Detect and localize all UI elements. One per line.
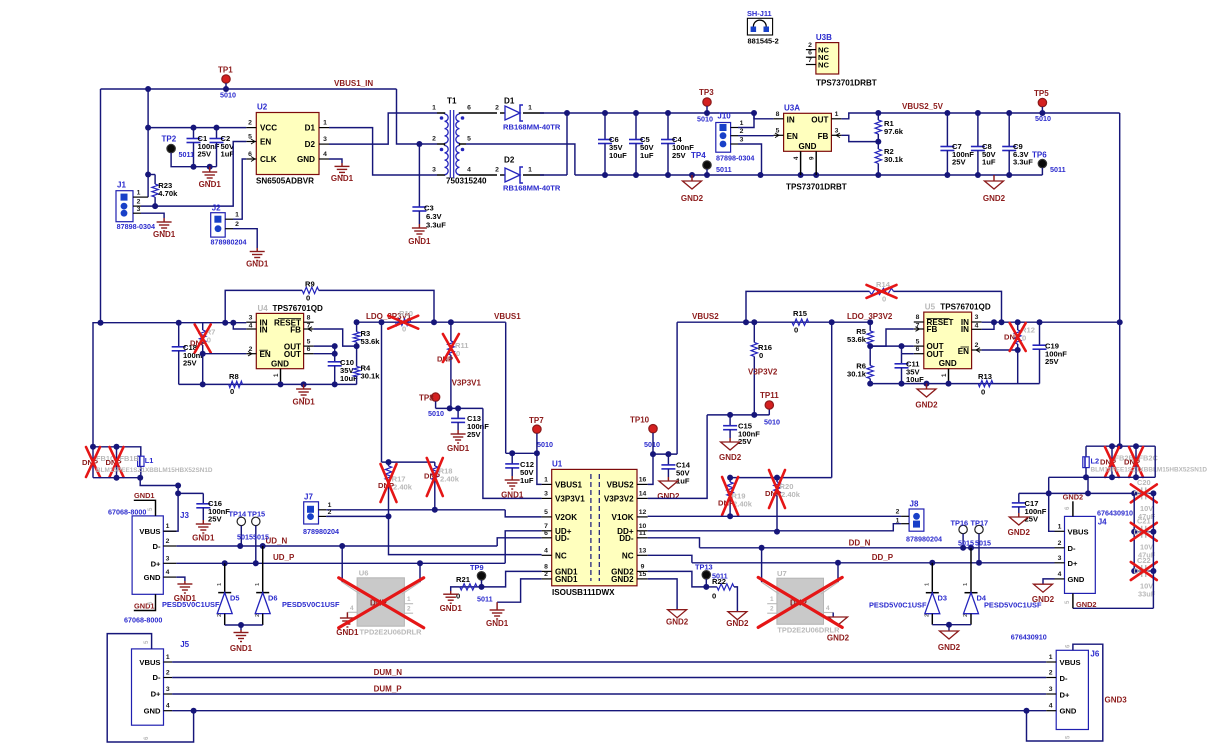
capacitor C15 100nF 25V bbox=[729, 415, 731, 426]
ground GND1 at U2 pin4 bbox=[329, 159, 342, 163]
svg-text:2: 2 bbox=[963, 614, 969, 617]
wire T1 pin5 to GND2 rail bbox=[466, 144, 575, 175]
svg-text:FB: FB bbox=[818, 132, 829, 141]
svg-text:BLM15PEE1SZ1XBBLM15HBX52SN1D: BLM15PEE1SZ1XBBLM15HBX52SN1D bbox=[96, 467, 213, 474]
svg-text:0: 0 bbox=[306, 294, 310, 303]
svg-text:PESD5V0C1USF: PESD5V0C1USF bbox=[869, 601, 927, 610]
capacitor C4 100nF 25V bbox=[667, 113, 669, 140]
op IC U2 SN6505ADBVR bbox=[256, 113, 319, 175]
diode D4 PESD5V0C1USF bbox=[970, 548, 972, 593]
svg-text:R22: R22 bbox=[712, 577, 726, 586]
wire V3P3V1 node rail bbox=[436, 407, 483, 409]
svg-text:97.6k: 97.6k bbox=[884, 127, 904, 136]
ground GND2 at U1 pin9 via R22 bbox=[648, 571, 707, 587]
svg-text:676430910: 676430910 bbox=[1011, 633, 1047, 642]
svg-text:D-: D- bbox=[152, 542, 160, 551]
svg-text:1: 1 bbox=[328, 502, 332, 509]
diode D3 PESD5V0C1USF bbox=[931, 563, 933, 593]
svg-text:U7: U7 bbox=[777, 569, 787, 578]
capacitor C18 100nF 25V bbox=[178, 323, 180, 347]
svg-text:DUM_N: DUM_N bbox=[374, 668, 403, 677]
svg-text:TPS76701QD: TPS76701QD bbox=[940, 303, 991, 312]
resistor R20 DNP 2.40k bbox=[776, 478, 778, 482]
svg-text:EN: EN bbox=[260, 138, 271, 147]
svg-text:9: 9 bbox=[809, 156, 816, 160]
svg-text:D+: D+ bbox=[1060, 691, 1070, 700]
svg-text:V1OK: V1OK bbox=[612, 513, 634, 522]
resistor R2 30.1k bbox=[877, 142, 879, 149]
wire D3 D4 join to GND2 bbox=[932, 624, 971, 626]
wire IN2 jog bbox=[233, 323, 246, 329]
svg-text:2: 2 bbox=[407, 606, 411, 613]
wire VBUS1 node rail bbox=[506, 452, 537, 454]
svg-text:GND1: GND1 bbox=[192, 534, 215, 543]
resistor R18 DNP 2.40k bbox=[434, 462, 436, 466]
svg-text:1uF: 1uF bbox=[520, 476, 534, 485]
test point TP11 bbox=[768, 409, 770, 415]
svg-text:D2: D2 bbox=[305, 140, 316, 149]
svg-text:GND1: GND1 bbox=[408, 237, 431, 246]
svg-text:8: 8 bbox=[776, 111, 780, 118]
svg-text:4: 4 bbox=[1058, 571, 1062, 578]
svg-text:NC: NC bbox=[622, 551, 634, 560]
svg-text:TP16: TP16 bbox=[951, 518, 969, 527]
svg-text:25V: 25V bbox=[672, 151, 686, 160]
svg-text:5: 5 bbox=[544, 509, 548, 516]
wire DUM_P row bbox=[172, 693, 1046, 695]
svg-text:5015: 5015 bbox=[975, 538, 991, 547]
svg-text:0: 0 bbox=[712, 592, 716, 601]
connector J4 676430910 USB bbox=[1065, 516, 1096, 593]
svg-text:30.1k: 30.1k bbox=[884, 155, 904, 164]
svg-text:GND1: GND1 bbox=[153, 230, 176, 239]
svg-text:3: 3 bbox=[249, 314, 253, 321]
wire DUM_N row bbox=[172, 677, 1046, 679]
svg-text:6: 6 bbox=[916, 346, 920, 353]
ground GND2 under U5 bbox=[926, 384, 928, 389]
wire rectifier output rail bbox=[566, 113, 568, 175]
ground GND1 at U6 pin4 bbox=[346, 612, 348, 618]
wire VBUS1_IN to T1 pin2 bbox=[397, 89, 438, 144]
svg-text:R9: R9 bbox=[305, 280, 315, 289]
svg-text:GND1: GND1 bbox=[336, 628, 359, 637]
svg-text:IN: IN bbox=[787, 115, 795, 124]
svg-text:U4: U4 bbox=[258, 304, 269, 313]
svg-text:TP2: TP2 bbox=[162, 135, 177, 144]
diode D5 PESD5V0C1USF bbox=[224, 563, 226, 592]
ground GND2 under C15 bbox=[729, 438, 731, 442]
ground GND1 under C12 bbox=[511, 476, 513, 480]
capacitor C7 100nF 25V bbox=[946, 113, 948, 147]
wire DD_N row bbox=[700, 547, 1055, 549]
wire U5 FB to divider bbox=[870, 329, 914, 346]
svg-text:U1: U1 bbox=[552, 459, 563, 468]
svg-text:GND2: GND2 bbox=[938, 643, 961, 652]
svg-text:10uF: 10uF bbox=[906, 375, 924, 384]
test point TP5 bbox=[1038, 98, 1046, 106]
svg-text:2.40k: 2.40k bbox=[440, 475, 460, 484]
capacitor C19 100nF 25V bbox=[1039, 322, 1041, 345]
svg-text:U5: U5 bbox=[925, 303, 936, 312]
svg-text:13: 13 bbox=[639, 547, 647, 554]
svg-text:V2OK: V2OK bbox=[555, 513, 577, 522]
svg-text:2: 2 bbox=[328, 509, 332, 516]
svg-text:878980204: 878980204 bbox=[906, 535, 942, 544]
svg-text:2: 2 bbox=[495, 167, 499, 174]
svg-text:4: 4 bbox=[350, 605, 354, 612]
svg-text:2: 2 bbox=[495, 105, 499, 112]
svg-text:V3P3V2: V3P3V2 bbox=[748, 368, 778, 377]
svg-text:GND2: GND2 bbox=[1008, 528, 1031, 537]
svg-text:3: 3 bbox=[835, 128, 839, 135]
svg-text:OUT: OUT bbox=[811, 115, 828, 124]
svg-text:3: 3 bbox=[166, 555, 170, 562]
svg-text:TPS73701DRBT: TPS73701DRBT bbox=[816, 79, 877, 88]
wire VBUS2 rail bbox=[677, 321, 870, 323]
wire FB2 bottom rail bbox=[1049, 476, 1156, 478]
svg-text:GND: GND bbox=[144, 573, 161, 582]
svg-text:GND2: GND2 bbox=[827, 634, 850, 643]
resistor R22 0 bbox=[706, 586, 717, 588]
svg-text:TP4: TP4 bbox=[691, 151, 706, 160]
wire VBUS2 node rail bbox=[653, 453, 677, 455]
capacitor C13 100nF 25V bbox=[457, 408, 459, 418]
wire UD_P row bbox=[176, 562, 505, 564]
wire rail drop to U3A IN bbox=[754, 113, 774, 119]
wire VBUS2_5V right vertical bbox=[1119, 113, 1121, 446]
svg-text:2: 2 bbox=[166, 538, 170, 545]
svg-text:1: 1 bbox=[528, 167, 532, 174]
svg-text:8: 8 bbox=[916, 314, 920, 321]
svg-text:4: 4 bbox=[544, 547, 548, 554]
svg-text:GND1: GND1 bbox=[199, 180, 222, 189]
svg-text:D1: D1 bbox=[504, 97, 515, 106]
svg-text:6: 6 bbox=[544, 530, 548, 537]
svg-text:FB1B: FB1B bbox=[120, 454, 139, 463]
svg-text:16: 16 bbox=[639, 476, 647, 483]
svg-text:GND3: GND3 bbox=[1105, 695, 1128, 704]
svg-text:D3: D3 bbox=[938, 594, 947, 603]
wire C17 VBUS rail bbox=[1019, 492, 1134, 494]
capacitor C22 DNP 10V 33uF bbox=[1134, 570, 1142, 572]
resistor R14 DNP 0 bypass bbox=[746, 291, 870, 322]
connector J3 67068-8000 USB bbox=[132, 516, 163, 594]
svg-text:1: 1 bbox=[235, 212, 239, 219]
svg-text:4.70k: 4.70k bbox=[158, 189, 178, 198]
wire left vertical VBUS1_IN bbox=[100, 89, 102, 323]
svg-text:5011: 5011 bbox=[477, 595, 493, 604]
svg-text:SH-J11: SH-J11 bbox=[747, 9, 772, 18]
svg-text:R10: R10 bbox=[399, 309, 413, 318]
svg-text:L2: L2 bbox=[1091, 457, 1100, 466]
wire V3P3V2 node rail bbox=[707, 414, 769, 416]
svg-text:4: 4 bbox=[793, 156, 800, 160]
connector J5 67068-8000 USB dummy bbox=[132, 649, 164, 725]
diode D1 RB168MM-40TR bbox=[466, 112, 497, 114]
capacitor C10 35V 10uF bbox=[334, 354, 336, 362]
svg-text:ISOUSB111DWX: ISOUSB111DWX bbox=[552, 588, 615, 597]
svg-text:2: 2 bbox=[925, 614, 931, 617]
wire UD- from U1 bbox=[497, 538, 541, 546]
wire U4 OUT pins bbox=[314, 345, 335, 347]
resistor R3 53.6k bbox=[356, 322, 358, 332]
svg-text:CLK: CLK bbox=[260, 155, 277, 164]
svg-text:2: 2 bbox=[770, 606, 774, 613]
svg-text:6: 6 bbox=[307, 346, 311, 353]
test point TP13 bbox=[702, 571, 710, 579]
svg-text:GND1: GND1 bbox=[486, 619, 509, 628]
wire V3P3V1 to U1 pin3 bbox=[483, 408, 542, 498]
svg-text:GND: GND bbox=[939, 359, 957, 368]
wire VBUS dummy row bbox=[172, 661, 1046, 663]
svg-text:0: 0 bbox=[794, 326, 798, 335]
svg-text:TP15: TP15 bbox=[248, 509, 266, 518]
svg-text:GND1: GND1 bbox=[501, 491, 524, 500]
svg-text:2: 2 bbox=[896, 509, 900, 516]
ferrite FB1B DNP bbox=[116, 447, 118, 478]
resistor R6 30.1k bbox=[869, 346, 871, 365]
svg-text:8: 8 bbox=[307, 314, 311, 321]
ground GND1 under C13 bbox=[457, 430, 459, 434]
svg-text:5: 5 bbox=[467, 136, 471, 143]
svg-text:1: 1 bbox=[407, 596, 411, 603]
svg-text:3: 3 bbox=[544, 490, 548, 497]
svg-text:J6: J6 bbox=[1090, 649, 1099, 658]
svg-text:5010: 5010 bbox=[428, 409, 444, 418]
svg-text:U3B: U3B bbox=[816, 33, 832, 42]
ground GND2 on rail right bbox=[993, 175, 995, 181]
svg-text:2: 2 bbox=[432, 136, 436, 143]
svg-text:TP8: TP8 bbox=[419, 393, 434, 402]
wire VBUS1 feed down bbox=[505, 322, 507, 453]
capacitor C17 100nF 25V bbox=[1018, 493, 1020, 503]
test point TP8 bbox=[431, 393, 439, 401]
suppressor U7 TPD2E2U06DRLR DNP bbox=[777, 578, 824, 624]
connector J1 87898-0304 bbox=[116, 191, 133, 222]
svg-text:3.3uF: 3.3uF bbox=[1013, 158, 1033, 167]
resistor R13 0 bbox=[978, 380, 993, 386]
wire U2 D2 to T1 pin1 bbox=[329, 113, 437, 144]
svg-text:C20: C20 bbox=[1137, 478, 1151, 487]
svg-text:1: 1 bbox=[1058, 523, 1062, 530]
svg-text:25V: 25V bbox=[1045, 357, 1059, 366]
svg-text:4: 4 bbox=[826, 605, 830, 612]
wire pullup top rail bbox=[382, 461, 435, 463]
svg-text:3: 3 bbox=[166, 686, 170, 693]
svg-text:D1: D1 bbox=[305, 124, 316, 133]
svg-text:J7: J7 bbox=[304, 492, 313, 501]
svg-text:BLM15PEE1SZ1XBBLM15HBX52SN1D: BLM15PEE1SZ1XBBLM15HBX52SN1D bbox=[1091, 466, 1208, 473]
wire UD_N row bbox=[176, 545, 497, 547]
wire J10 pin1 to rail bbox=[738, 113, 754, 128]
J5 shell loop bbox=[107, 634, 193, 742]
svg-text:15: 15 bbox=[639, 571, 647, 578]
svg-text:PESD5V0C1USF: PESD5V0C1USF bbox=[282, 600, 340, 609]
svg-text:VBUS: VBUS bbox=[139, 527, 160, 536]
svg-text:5015: 5015 bbox=[958, 538, 974, 547]
svg-text:0: 0 bbox=[230, 387, 234, 396]
ground GND2 under C17 bbox=[1018, 513, 1020, 517]
svg-text:30.1k: 30.1k bbox=[361, 372, 381, 381]
wire D5 D6 join to GND1 bbox=[225, 624, 263, 626]
inductor L2 bbox=[1085, 446, 1087, 457]
svg-text:1: 1 bbox=[544, 476, 548, 483]
svg-text:GND: GND bbox=[1060, 706, 1077, 715]
ferrite FB1C DNP bbox=[92, 447, 94, 478]
svg-text:DD_N: DD_N bbox=[849, 538, 871, 547]
svg-text:12: 12 bbox=[639, 509, 647, 516]
svg-text:VBUS2: VBUS2 bbox=[692, 312, 719, 321]
wire U4 EN to ground bbox=[203, 353, 247, 355]
svg-text:7: 7 bbox=[808, 57, 812, 64]
svg-text:25V: 25V bbox=[208, 515, 222, 524]
svg-text:2: 2 bbox=[544, 571, 548, 578]
svg-text:1: 1 bbox=[432, 105, 436, 112]
svg-text:5010: 5010 bbox=[764, 418, 780, 427]
svg-text:4: 4 bbox=[1049, 703, 1053, 710]
svg-text:1: 1 bbox=[896, 517, 900, 524]
wire VCC rail bbox=[148, 127, 246, 129]
svg-text:D2: D2 bbox=[504, 156, 515, 165]
svg-text:D-: D- bbox=[1068, 544, 1076, 553]
capacitor C6 35V 10uF bbox=[604, 113, 606, 140]
ground GND1 at J1 pin3 bbox=[141, 213, 164, 218]
svg-text:VBUS: VBUS bbox=[139, 658, 160, 667]
capacitor C14 50V 1uF bbox=[667, 454, 669, 465]
wire VBUS1_IN rail bbox=[101, 88, 397, 90]
wire V1OK row right bbox=[648, 515, 901, 517]
svg-text:NC: NC bbox=[818, 61, 829, 70]
ground GND2 on secondary rail bbox=[691, 175, 693, 181]
svg-text:TP3: TP3 bbox=[699, 88, 714, 97]
test point TP3 bbox=[703, 98, 711, 106]
svg-text:878980204: 878980204 bbox=[211, 238, 247, 247]
wire down to C17 rail bbox=[1048, 477, 1050, 493]
svg-text:1uF: 1uF bbox=[982, 158, 996, 167]
svg-text:1: 1 bbox=[528, 105, 532, 112]
connector J10 87898-0304 bbox=[716, 123, 731, 153]
op IC U5 TPS76701QD bbox=[924, 312, 972, 369]
svg-text:GND1: GND1 bbox=[292, 398, 315, 407]
svg-text:4: 4 bbox=[467, 167, 471, 174]
svg-text:D+: D+ bbox=[1068, 559, 1078, 568]
svg-text:5010: 5010 bbox=[1035, 114, 1051, 123]
svg-text:TP9: TP9 bbox=[470, 563, 484, 572]
svg-text:GND2: GND2 bbox=[719, 453, 742, 462]
svg-text:2.40k: 2.40k bbox=[781, 490, 801, 499]
svg-text:5: 5 bbox=[916, 338, 920, 345]
wire U5 IN2 jog bbox=[982, 322, 994, 329]
wire to U1 VBUS2 pin bbox=[648, 454, 653, 484]
resistor R15 0 bbox=[792, 319, 809, 325]
svg-text:5015: 5015 bbox=[253, 533, 269, 542]
wire V3P3V2 to U1 pin14 bbox=[648, 415, 707, 499]
wire to J3 VBUS bbox=[140, 478, 178, 486]
svg-text:3: 3 bbox=[975, 314, 979, 321]
test point TP6 bbox=[1038, 159, 1046, 167]
svg-text:1: 1 bbox=[166, 654, 170, 661]
svg-text:3: 3 bbox=[1058, 555, 1062, 562]
svg-text:GND2: GND2 bbox=[1063, 493, 1084, 502]
svg-text:67068-8000: 67068-8000 bbox=[124, 615, 162, 624]
svg-text:TP14: TP14 bbox=[229, 509, 248, 518]
resistor R5 53.6k bbox=[869, 322, 871, 331]
svg-text:D+: D+ bbox=[151, 690, 161, 699]
test point TP4 bbox=[703, 161, 711, 169]
svg-text:67068-8000: 67068-8000 bbox=[108, 508, 146, 517]
op IC U4 TPS76701QD bbox=[256, 313, 303, 368]
wire V1OK rail left bbox=[326, 515, 388, 517]
wire U5 ground rail bbox=[870, 383, 1039, 385]
svg-text:TP7: TP7 bbox=[529, 416, 544, 425]
svg-text:0: 0 bbox=[456, 592, 460, 601]
svg-text:2: 2 bbox=[975, 342, 979, 349]
svg-text:5: 5 bbox=[307, 338, 311, 345]
ground GND1 under C1 C2 bbox=[209, 167, 211, 172]
resistor R17 DNP 2.40k bbox=[388, 462, 390, 466]
resistor R23 4.70k bbox=[148, 174, 155, 176]
svg-text:GND2: GND2 bbox=[666, 618, 689, 627]
svg-text:2: 2 bbox=[235, 221, 239, 228]
wire J10 pin2 to U3A EN bbox=[738, 135, 774, 137]
svg-text:TP1: TP1 bbox=[218, 66, 233, 75]
resistor R16 0 to V3P3V2 bbox=[753, 322, 755, 342]
svg-text:D6: D6 bbox=[268, 593, 277, 602]
svg-text:1: 1 bbox=[740, 120, 744, 127]
svg-text:U6: U6 bbox=[359, 569, 369, 578]
resistor R10 DNP 0 in rail bbox=[395, 319, 411, 325]
wire DD- to DD_N row bbox=[648, 538, 700, 548]
connector J8 878980204 bbox=[909, 509, 924, 531]
wire U4 FB to divider bbox=[314, 329, 357, 346]
svg-text:25V: 25V bbox=[198, 150, 212, 159]
svg-text:J5: J5 bbox=[180, 640, 189, 649]
resistor R4 30.1k bbox=[356, 346, 358, 366]
test point TP1 bbox=[222, 75, 230, 83]
svg-text:676430910: 676430910 bbox=[1097, 508, 1133, 517]
svg-text:2: 2 bbox=[248, 120, 252, 127]
svg-text:2: 2 bbox=[255, 614, 261, 617]
J4 shell pin top bbox=[1072, 501, 1074, 516]
wire LDO_3P3V2 pullup rail feed bbox=[831, 322, 833, 477]
ferrite FB2B DNP bbox=[1111, 446, 1113, 477]
svg-text:V3P3V1: V3P3V1 bbox=[555, 494, 585, 503]
svg-text:EN: EN bbox=[958, 347, 969, 356]
wire U3A FB bbox=[841, 135, 878, 141]
svg-text:3: 3 bbox=[432, 167, 436, 174]
svg-text:1: 1 bbox=[1049, 654, 1053, 661]
svg-text:VBUS1_IN: VBUS1_IN bbox=[334, 79, 373, 88]
wire TP2 to cap ground rail bbox=[171, 153, 216, 167]
svg-text:C22: C22 bbox=[1137, 556, 1151, 565]
wire UD+ from U1 bbox=[505, 531, 541, 564]
capacitor C11 35V 10uF bbox=[901, 354, 903, 364]
wire secondary ground rail bbox=[575, 174, 1043, 176]
svg-text:U3A: U3A bbox=[784, 104, 800, 113]
ground GND2 at U1 pin15 bbox=[648, 579, 677, 610]
svg-text:J8: J8 bbox=[910, 499, 919, 508]
svg-text:OUT: OUT bbox=[927, 350, 944, 359]
resistor R12 DNP on EN bbox=[1017, 322, 1019, 330]
svg-text:TP17: TP17 bbox=[971, 518, 989, 527]
svg-text:GND1: GND1 bbox=[555, 575, 578, 584]
wire VCC drop bbox=[147, 89, 149, 197]
svg-text:4: 4 bbox=[323, 151, 327, 158]
capacitor C3 6.3V 3.3uF bbox=[418, 144, 420, 207]
wire J1 pin2 to EN bbox=[141, 142, 246, 207]
ground GND1 under U4 bbox=[303, 384, 305, 389]
capacitor C20 DNP 10V 47uF bbox=[1134, 492, 1142, 494]
